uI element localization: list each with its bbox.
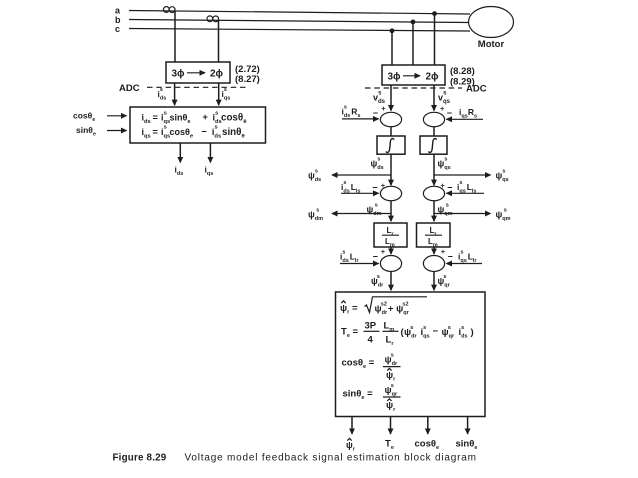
svg-text:3ϕ: 3ϕ [387,72,401,83]
wire: tap from phase b to left 3ph-2ph block [218,20,220,62]
ADC boundary (right, dashed) [365,84,487,95]
svg-text:c: c [115,24,120,34]
svg-text:+: + [203,112,208,122]
svg-text:+: + [440,181,445,190]
svg-text:(8.28): (8.28) [450,66,475,77]
equation T_e = 3P/4 Lm/Lr (psi_dr i_qs - psi_qr i_ds) [341,321,474,348]
output i_ds arrow [175,143,184,177]
node: tap on phase c [390,28,395,33]
svg-text:−: − [373,108,378,118]
svg-text:+: + [381,104,386,113]
current sensor CT on phase a [163,7,175,13]
block: right 3phi to 2phi transform [382,65,445,85]
svg-text:Motor: Motor [478,39,505,50]
svg-text:sinθe: sinθe [456,439,478,452]
input cos_theta_e [73,111,127,124]
svg-text:−: − [372,183,377,193]
svg-text:cosθe: cosθe [415,439,440,452]
block: current vector rotation equations [130,107,266,143]
block: Lr/Lm gain right [417,223,451,248]
wire: phase a to right block [434,14,436,65]
block: flux/torque/unit-vector estimator [336,292,486,417]
wire: i_qs^s from ADC into transform block [219,83,231,105]
svg-text:−: − [373,252,378,262]
svg-text:cosθe =: cosθe = [342,358,375,371]
wire: phase b to right block [412,22,414,65]
svg-text:−: − [447,183,452,193]
equation cos_theta_e = psi_dr^s / psi_r_hat [342,352,401,382]
svg-text:): ) [471,327,474,338]
svg-text:Voltage model feedback signal: Voltage model feedback signal estimation… [185,453,477,464]
svg-text:−: − [447,108,452,118]
block: left 3phi to 2phi transform [166,62,230,83]
svg-text:(8.27): (8.27) [235,74,260,85]
equation sin_theta_e = psi_qr^s / psi_r_hat [343,383,401,413]
node: tap on phase a [432,11,437,16]
input i_qs R_s [446,107,483,120]
input i_qs^s L_lr [446,249,482,264]
input i_ds^s L_ls [341,180,379,195]
current sensor CT on phase b [207,16,219,22]
svg-text:=: = [153,113,158,123]
phase line a [115,6,470,16]
input i_ds^s L_lr [340,249,379,264]
wire: S1R to integrator R [433,127,435,136]
output cos_theta_e arrow [415,417,440,452]
phase line b [115,15,470,25]
figure caption [113,453,477,464]
wire: S3L to estimator block, label psi_dr^s [371,272,391,291]
input i_qs^s L_ls [446,180,484,195]
wire: Lr/Lm R to summer S3R [433,247,435,254]
svg-text:Te =: Te = [341,327,359,340]
summer S2L (psi_ds - i_ds L_ls) [372,181,401,201]
svg-text:+: + [381,247,386,256]
svg-text:=: = [153,127,158,137]
svg-text:4: 4 [368,335,374,346]
wire: v_qs^s into right summer 1 [434,85,451,111]
wire: S2R to Lr/Lm block R, label psi_qm^s [434,201,453,222]
svg-text:3P: 3P [365,321,377,332]
svg-text:−: − [448,252,453,262]
motor [469,7,514,51]
input i_ds^s R_s [342,104,379,119]
wire: S2L to Lr/Lm block L, label psi_dm^s [367,201,392,222]
wire: i_ds^s from ADC into transform block [158,83,175,105]
output sin_theta_e arrow [456,417,478,452]
wire: Lr/Lm L to summer S3L [390,247,392,254]
wire: phase c to right block [391,31,393,65]
branch: psi_qs^s output to right [434,168,509,183]
svg-text:ψr =: ψr = [340,303,358,316]
equation i_ds [142,110,248,125]
svg-text:Figure 8.29: Figure 8.29 [113,453,167,464]
integrator block left [377,136,405,154]
svg-text:sinθe =: sinθe = [343,389,374,402]
branch: psi_ds^s output to left [308,168,391,183]
phase line c [115,24,470,34]
summer S3L (psi_dm - i_ds L_lr) [373,247,402,271]
node: tap on phase b [411,20,416,25]
svg-text:2ϕ: 2ϕ [425,72,439,83]
svg-text:2ϕ: 2ϕ [210,69,224,80]
equation psi_r_hat = sqrt(psi_dr^s2 + psi_qr^s2) [340,297,427,316]
output i_qs arrow [205,143,214,177]
input sin_theta_e [76,125,127,138]
branch: psi_qm^s output to right [434,207,511,222]
svg-text:+: + [381,181,386,190]
svg-text:+: + [441,247,446,256]
equation i_qs [142,125,246,140]
summer S1L (v_ds - i_ds R_s) [373,104,402,127]
svg-text:ADC: ADC [119,83,140,94]
wire: tap from phase a to left 3ph-2ph block [174,11,176,62]
wire: integrator R to summer S2R, label psi_qs^s [434,154,451,185]
svg-text:ADC: ADC [466,84,487,95]
integrator block right [420,136,447,154]
summer S1R (v_qs - i_qs R_s) [423,104,452,127]
wire: S3R to estimator block, label psi_qr^s [434,272,451,291]
summer S2R (psi_qs - i_qs L_ls) [423,181,452,201]
svg-text:3ϕ: 3ϕ [171,69,185,80]
svg-text:−: − [433,326,439,337]
summer S3R (psi_qm - i_qs L_lr) [423,247,452,271]
output psi_r_hat arrow [346,417,356,453]
svg-text:−: − [202,126,207,136]
ADC boundary (left, dashed) [119,83,249,94]
output T_e arrow [385,417,394,452]
branch: psi_dm^s output to left [308,207,391,222]
wire: S1L to integrator L [390,127,392,136]
wire: integrator L to summer S2L, label psi_ds^s [371,154,392,185]
wire: v_ds^s into left summer 1 [373,85,391,111]
svg-text:+: + [440,104,445,113]
block: Lr/Lm gain left [374,223,407,248]
